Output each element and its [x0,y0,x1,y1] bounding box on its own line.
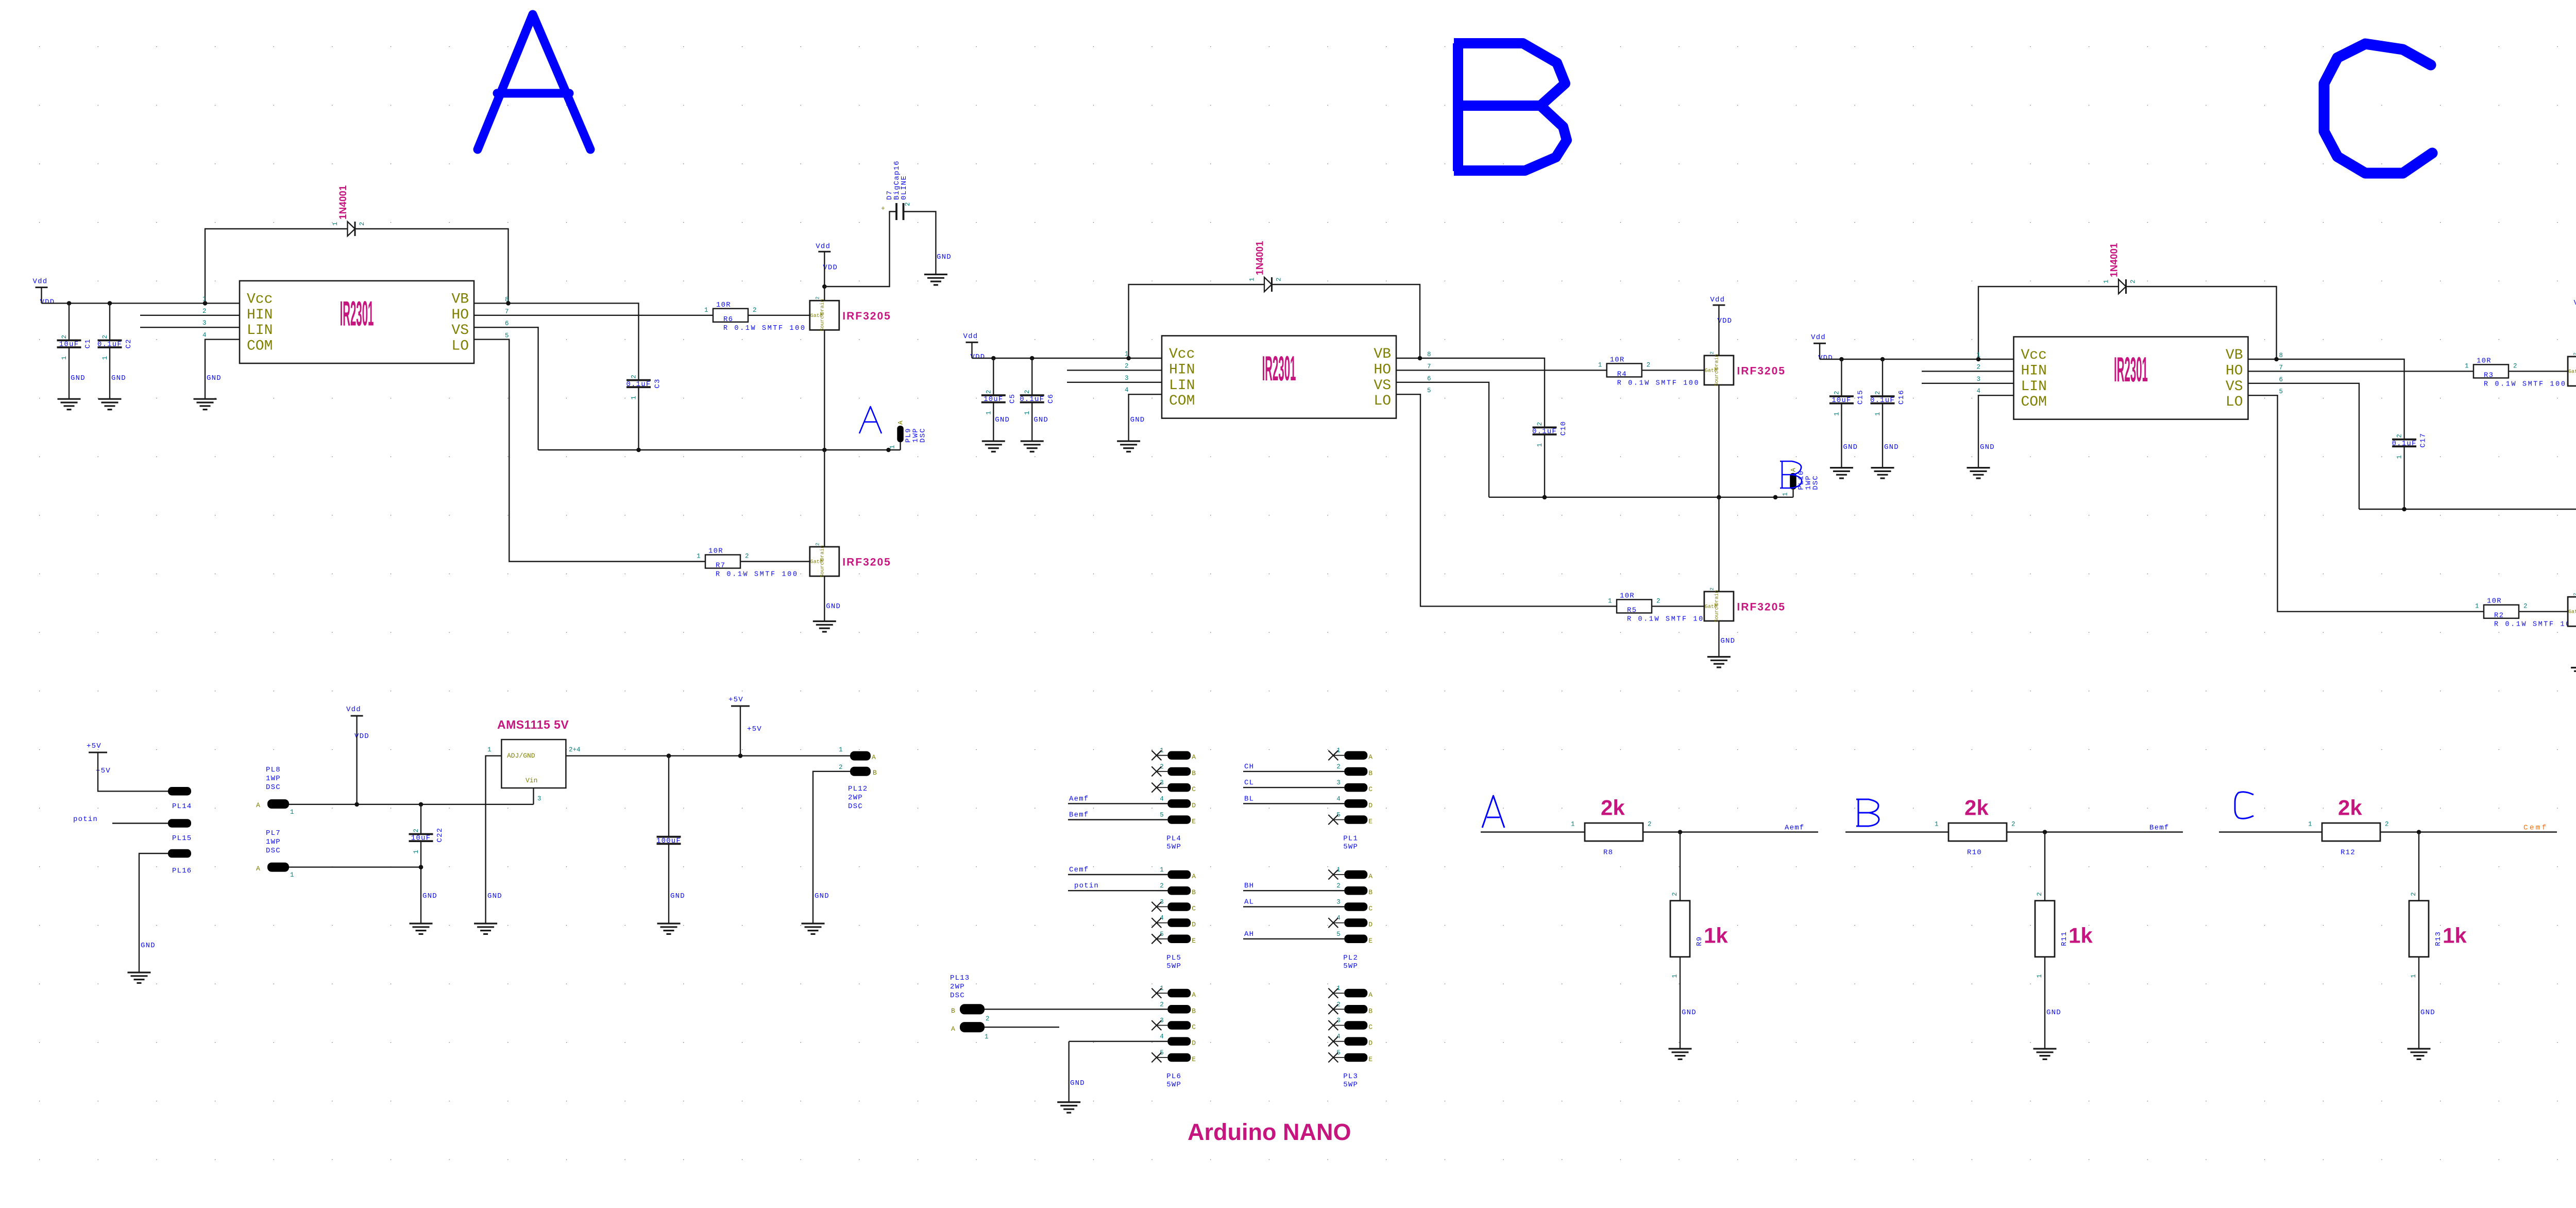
transistor low-side IRF3205 (block A) [810,547,839,576]
wire LO to low-side gate (block C) [2248,395,2568,611]
junction dots phase bus (block C) [2402,507,2406,512]
svg-text:R5: R5 [1627,606,1637,614]
svg-text:PL16: PL16 [172,867,192,875]
svg-text:2: 2 [985,390,992,394]
ground snubber (block A) [924,275,947,285]
svg-text:LO: LO [451,339,469,355]
svg-text:R 0.1W SMTF 100: R 0.1W SMTF 100 [723,325,806,332]
svg-text:PL8: PL8 [266,766,281,774]
junction dot C22/PL7 [419,865,423,869]
svg-text:1k: 1k [2069,924,2093,948]
svg-text:B: B [1192,1007,1196,1015]
wire net AL to PL2 pin3 [1243,906,1344,907]
wire COM to ground (block A) [205,340,240,399]
svg-text:2: 2 [359,222,366,226]
svg-text:10R: 10R [2477,357,2492,365]
resistor R9 1k (divider A) [1670,901,1690,957]
svg-text:C5: C5 [1008,394,1016,404]
svg-text:1: 1 [985,1033,989,1041]
svg-text:A: A [1368,873,1372,880]
connector PL1 5WP [1333,755,1344,756]
svg-text:HIN: HIN [2021,363,2047,379]
svg-text:VDD: VDD [1818,354,1833,362]
svg-text:2: 2 [2573,353,2576,356]
svg-text:3: 3 [1977,376,1981,383]
svg-text:A: A [951,1025,955,1033]
svg-text:R 0.1W SMTF 100: R 0.1W SMTF 100 [1617,379,1700,387]
svg-text:1: 1 [2410,974,2417,978]
svg-text:A: A [1192,753,1196,761]
ground COM (block C) [1967,468,1990,478]
wire VDD rail (block A) [42,288,240,304]
svg-text:1: 1 [290,871,294,879]
svg-text:1: 1 [2103,279,2110,283]
svg-text:2: 2 [1024,390,1031,394]
divider letter B [1856,799,1879,826]
ground 100uF [657,924,681,934]
connector PL6 5WP [1157,993,1167,994]
ground PL16 [128,972,151,983]
ground under C6 [1021,441,1044,451]
svg-text:R3: R3 [2484,371,2494,379]
svg-text:2: 2 [2523,603,2528,610]
ground (divider A) [1669,1049,1692,1059]
svg-text:Gate: Gate [2568,610,2576,615]
svg-text:1: 1 [1608,597,1612,605]
svg-text:2WP: 2WP [848,794,863,802]
svg-text:1: 1 [202,295,207,303]
svg-text:1: 1 [1874,412,1882,416]
wire to ground (divider A) [1680,957,1681,1049]
svg-text:A: A [1192,873,1196,880]
wire PL13 B to PL6 pin2 [985,1009,1167,1010]
wire PL7 to C22 ground node [289,866,421,867]
svg-text:HIN: HIN [247,307,273,323]
svg-text:C17: C17 [2419,433,2428,448]
svg-text:1: 1 [2396,455,2403,459]
wire net potin to PL5 pin2 [1068,890,1167,891]
svg-text:1k: 1k [1704,924,1728,948]
svg-text:A: A [872,753,876,761]
power symbol Vdd (block C left) [1814,343,1826,344]
wire diode bootstrap loop (block C) [1978,287,2277,359]
phase letter A (small) [859,407,882,433]
power symbol +5V (middle) [731,706,750,707]
svg-text:GND: GND [422,892,437,900]
IC IR2301 (block A) [240,281,474,363]
svg-text:DSC: DSC [266,783,281,792]
wire snubber loop (block A) [824,212,936,287]
wire C17 to phase bus [2403,446,2404,509]
power symbol +5V (left) [89,752,107,753]
svg-text:PL6: PL6 [1166,1072,1181,1081]
connector PL7 1WP DSC [267,863,289,872]
svg-text:R 0.1W SMTF 100: R 0.1W SMTF 100 [1627,615,1710,623]
svg-text:8: 8 [2279,352,2283,359]
svg-text:GND: GND [1884,443,1899,451]
wire COM to ground (block C) [1978,395,2014,467]
svg-text:B: B [1368,769,1372,777]
svg-text:2: 2 [1656,597,1660,605]
svg-text:Vdd: Vdd [1710,296,1725,304]
svg-text:D: D [1368,801,1372,809]
transistor high-side IRF3205 (block C) [2568,357,2576,386]
svg-text:1: 1 [101,356,109,360]
svg-text:GND: GND [826,602,841,611]
wire cap C6 [1031,358,1032,441]
capacitor C10 bootstrap (block B) [1533,427,1557,434]
wire net Bemf to PL4 pin5 [1068,819,1167,820]
wire net BL to PL1 pin4 [1243,803,1344,804]
connector PL10 1WP DSC (block B) [1792,490,1793,497]
svg-text:5WP: 5WP [1166,962,1181,970]
svg-text:1WP: 1WP [266,775,281,783]
svg-text:2: 2 [1648,821,1652,828]
svg-text:R13: R13 [2434,931,2443,946]
svg-text:IRF3205: IRF3205 [842,310,891,322]
svg-text:2: 2 [202,308,207,315]
svg-text:7: 7 [1427,363,1431,370]
svg-text:2: 2 [2385,821,2389,828]
svg-text:1: 1 [889,445,896,449]
svg-text:1: 1 [1935,821,1939,828]
wire Vdd to snubber junction (block A) [824,251,825,287]
svg-text:GND: GND [71,374,86,382]
wire high-side source to phase bus (block A) [824,330,825,450]
wire output net Aemf (divider A) [1643,831,1680,832]
svg-text:R10: R10 [1967,849,1982,857]
svg-text:1: 1 [839,746,843,753]
svg-text:5WP: 5WP [1343,962,1358,970]
svg-text:R4: R4 [1617,370,1627,378]
connector PL8 1WP DSC [267,799,289,809]
svg-text:AMS1115 5V: AMS1115 5V [497,718,569,731]
svg-text:IRF3205: IRF3205 [1737,365,1786,377]
section label B [1454,43,1567,171]
svg-text:Drain: Drain [1714,354,1720,370]
svg-text:Source: Source [820,559,825,577]
svg-text:VS: VS [451,323,469,339]
svg-text:CH: CH [1244,763,1254,771]
svg-text:2: 2 [1536,422,1544,426]
svg-text:1: 1 [1536,443,1544,447]
wire output net Cemf (divider C) [2380,831,2419,832]
svg-text:1: 1 [1125,350,1129,358]
wire PL16 to ground [139,853,168,972]
svg-text:A: A [256,801,260,809]
svg-text:COM: COM [2021,394,2047,410]
wire input (divider B) [1845,831,1948,832]
wire bus to low-side drain (block B) [1718,497,1719,592]
svg-text:D: D [1192,801,1196,809]
connector PL12 pad B [850,767,871,776]
wire VS to phase bus (block A) [474,327,538,450]
svg-text:LO: LO [2226,394,2243,410]
svg-text:7: 7 [505,308,509,315]
svg-text:Source: Source [1714,603,1720,622]
IC IR2301 (block B) [1162,336,1396,418]
svg-text:DSC: DSC [848,802,863,811]
svg-text:GND: GND [670,892,685,900]
svg-text:R6: R6 [723,315,733,324]
svg-text:Vcc: Vcc [2021,347,2047,363]
svg-text:B: B [1368,1007,1372,1015]
svg-text:2: 2 [1160,882,1164,890]
wire HO to gate (block B) [1396,370,1704,371]
svg-text:E: E [1368,818,1372,826]
svg-text:2: 2 [1709,351,1715,355]
svg-text:LIN: LIN [1169,378,1195,394]
svg-text:2: 2 [2130,279,2137,283]
resistor R12 2k (divider C) [2322,823,2380,841]
junction dot VB (block B) [1418,356,1422,361]
svg-text:B: B [1192,769,1196,777]
svg-text:2: 2 [1125,362,1129,370]
wire VB net (block A) [474,303,639,380]
svg-text:R8: R8 [1603,849,1613,857]
capacitor C15 10uF (block C) [1829,396,1854,404]
svg-text:5: 5 [1336,931,1341,938]
ground under C15 [1830,468,1853,478]
svg-text:PL4: PL4 [1166,835,1181,843]
ground COM (block B) [1117,441,1140,451]
svg-text:IR2301: IR2301 [1262,349,1296,388]
svg-text:GND: GND [141,942,156,950]
resistor R6 10R gate high (block A) [713,309,748,322]
wire net BH to PL2 pin2 [1243,890,1344,891]
power symbol Vdd (block B left) [966,342,978,343]
svg-text:Vdd: Vdd [963,332,978,341]
svg-text:CL: CL [1244,779,1254,787]
svg-text:5: 5 [2279,388,2283,395]
wire output net Bemf (divider B) [2007,831,2045,832]
svg-text:Vdd: Vdd [346,706,361,714]
svg-text:COM: COM [247,339,273,355]
wire C22 [420,804,421,924]
svg-text:1: 1 [1833,412,1840,416]
svg-text:DSC: DSC [950,992,965,1000]
junction dot (divider A) [1678,830,1683,834]
svg-text:1: 1 [1571,821,1575,828]
svg-text:+5V: +5V [87,742,101,750]
svg-text:C: C [1192,785,1196,793]
resistor R7 10R gate low (block A) [705,555,740,568]
svg-text:2: 2 [2011,821,2015,828]
svg-text:2+4: 2+4 [569,746,581,753]
wire cap C5 [993,358,994,441]
svg-text:A: A [1790,468,1798,472]
wire low-side source to ground (block B) [1718,621,1719,657]
svg-text:Vdd: Vdd [1811,333,1826,342]
svg-text:IRF3205: IRF3205 [1737,601,1786,613]
junction dots VDD rail (block A) [67,301,72,306]
wire Vin rail PL8 to regulator pin3 [289,788,534,804]
svg-text:5WP: 5WP [1166,1081,1181,1089]
svg-text:PL12: PL12 [848,785,868,793]
svg-text:2: 2 [2396,434,2403,438]
diode D 1N4001 (block B) [1264,277,1272,292]
svg-text:PL14: PL14 [172,802,192,811]
svg-text:LIN: LIN [247,323,273,339]
power symbol Vdd above high-side MOSFET (block B) [1713,305,1725,306]
svg-text:Vcc: Vcc [1169,346,1195,362]
svg-text:PL13: PL13 [950,974,970,982]
svg-text:C: C [1192,1024,1196,1031]
wire potin to PL15 [112,823,168,824]
wire LO to low-side gate (block B) [1396,394,1704,606]
svg-text:Bemf: Bemf [1069,811,1089,819]
phase letter B (small) [1780,461,1802,488]
ground (divider B) [2033,1049,2057,1059]
svg-text:GND: GND [111,374,126,382]
svg-text:A: A [256,865,260,873]
svg-text:GND: GND [1070,1079,1085,1087]
svg-text:Drain: Drain [1714,590,1720,606]
divider letter A [1482,796,1504,828]
ground low-side (block A) [813,622,836,632]
svg-text:5: 5 [505,332,509,340]
ground under C2 [98,399,122,409]
svg-text:Source: Source [820,313,825,331]
transistor low-side IRF3205 (block C) [2568,597,2576,626]
svg-text:+5V: +5V [728,696,743,704]
svg-text:GND: GND [1843,443,1858,451]
wire input (divider C) [2219,831,2322,832]
connector PL14 [168,787,191,796]
svg-text:8: 8 [1427,351,1431,358]
svg-text:B: B [951,1007,955,1015]
svg-text:1: 1 [2475,603,2479,610]
svg-text:GND: GND [207,374,222,382]
wire Vdd to drain (block B) [1718,305,1719,356]
svg-text:LIN: LIN [2021,379,2047,395]
capacitor C 100uF [657,837,681,844]
svg-text:GND: GND [2420,1009,2435,1017]
svg-text:6: 6 [2279,376,2283,383]
power symbol Vdd (block A left) [36,287,48,288]
svg-text:C3: C3 [654,378,662,388]
svg-text:2: 2 [1336,763,1341,770]
svg-text:C: C [1368,1024,1372,1031]
svg-text:1: 1 [1249,277,1256,281]
junction dot snubber (block A) [822,284,827,289]
ground under C1 [58,399,81,409]
svg-text:1: 1 [2036,974,2043,978]
svg-text:2: 2 [1647,361,1651,368]
resistor R8 2k (divider A) [1585,823,1643,841]
diode D 1N4001 (block C) [2119,279,2126,294]
svg-text:C: C [1368,904,1372,912]
capacitor C2 0.1uF (block A) [98,340,122,347]
wire regulator ADJ to ground [486,756,502,924]
svg-text:VB: VB [2226,347,2243,363]
junction dot (divider B) [2043,830,2047,834]
svg-text:LO: LO [1374,393,1391,409]
svg-text:A: A [1368,753,1372,761]
divider letter C [2235,792,2253,819]
wire 100uF cap [668,756,669,924]
svg-text:1: 1 [697,553,701,560]
svg-text:2: 2 [1671,892,1679,896]
junction dot VB (block A) [506,301,511,306]
svg-text:GND: GND [1720,637,1735,645]
wire cap C15 [1841,359,1842,468]
junction dots Vin rail [354,802,359,807]
svg-text:HO: HO [1374,362,1391,378]
wire HO to gate (block A) [474,315,810,316]
svg-text:2: 2 [2036,892,2043,896]
svg-text:1: 1 [1671,974,1679,978]
svg-text:COM: COM [1169,393,1195,409]
svg-text:2: 2 [61,335,68,339]
wire to ground (divider C) [2418,957,2419,1049]
svg-text:BL: BL [1244,795,1254,803]
wire net CL to PL1 pin3 [1243,787,1344,788]
svg-text:GND: GND [1980,443,1995,451]
svg-text:DSC: DSC [1812,475,1820,490]
svg-text:4: 4 [1125,387,1129,394]
svg-text:GND: GND [1682,1009,1697,1017]
svg-text:2: 2 [2573,593,2576,596]
svg-text:2: 2 [1874,391,1882,395]
svg-text:C6: C6 [1047,394,1055,404]
transistor low-side IRF3205 (block B) [1704,592,1734,621]
svg-text:E: E [1368,937,1372,945]
svg-text:C15: C15 [1856,390,1865,405]
wire cap C16 [1882,359,1883,468]
svg-text:R 0.1W SMTF 100: R 0.1W SMTF 100 [2484,380,2567,388]
resistor R3 10R gate high (block C) [2473,364,2509,378]
svg-text:2: 2 [1977,363,1981,371]
svg-text:B: B [1368,888,1372,896]
junction dot VB (block C) [2274,357,2279,362]
svg-text:4: 4 [1160,795,1164,802]
connector PL3 5WP [1333,993,1344,994]
svg-text:2: 2 [2410,892,2417,896]
svg-text:Vdd: Vdd [2574,299,2576,307]
svg-text:VB: VB [451,291,469,307]
ground low-side (block C) [2571,668,2576,678]
svg-text:A: A [1368,991,1372,999]
wire +5V stem (middle) [740,706,741,756]
wire to ground (divider B) [2044,957,2045,1049]
connector PL15 [168,819,191,828]
svg-text:+: + [881,205,885,212]
wire VDD rail (block B) [972,342,1162,358]
wire VS to phase bus (block C) [2248,383,2360,509]
IC IR2301 (block C) [2014,337,2248,420]
svg-text:2k: 2k [1964,796,1989,820]
svg-text:C10: C10 [1560,421,1568,436]
wire VDD rail (block C) [1820,343,2014,359]
junction dots phase bus (block B) [1543,495,1547,500]
svg-text:IR2301: IR2301 [2114,350,2148,389]
svg-text:1: 1 [704,307,708,314]
svg-text:Drain: Drain [819,299,825,314]
svg-text:1: 1 [413,850,420,854]
svg-text:GND: GND [487,892,502,900]
svg-text:GND: GND [937,253,952,261]
svg-text:2: 2 [1336,882,1341,890]
capacitor C6 0.1uF (block B) [1020,395,1044,402]
svg-text:1: 1 [2465,362,2469,370]
svg-text:R12: R12 [2341,849,2355,857]
connector PL12 2WP DSC pad A [850,751,871,761]
ground regulator ADJ [474,924,497,934]
capacitor D7 BigCap16 0LINE snubber (block A) [896,203,904,220]
junction dots VDD rail (block B) [991,356,996,361]
svg-text:2: 2 [413,829,420,833]
